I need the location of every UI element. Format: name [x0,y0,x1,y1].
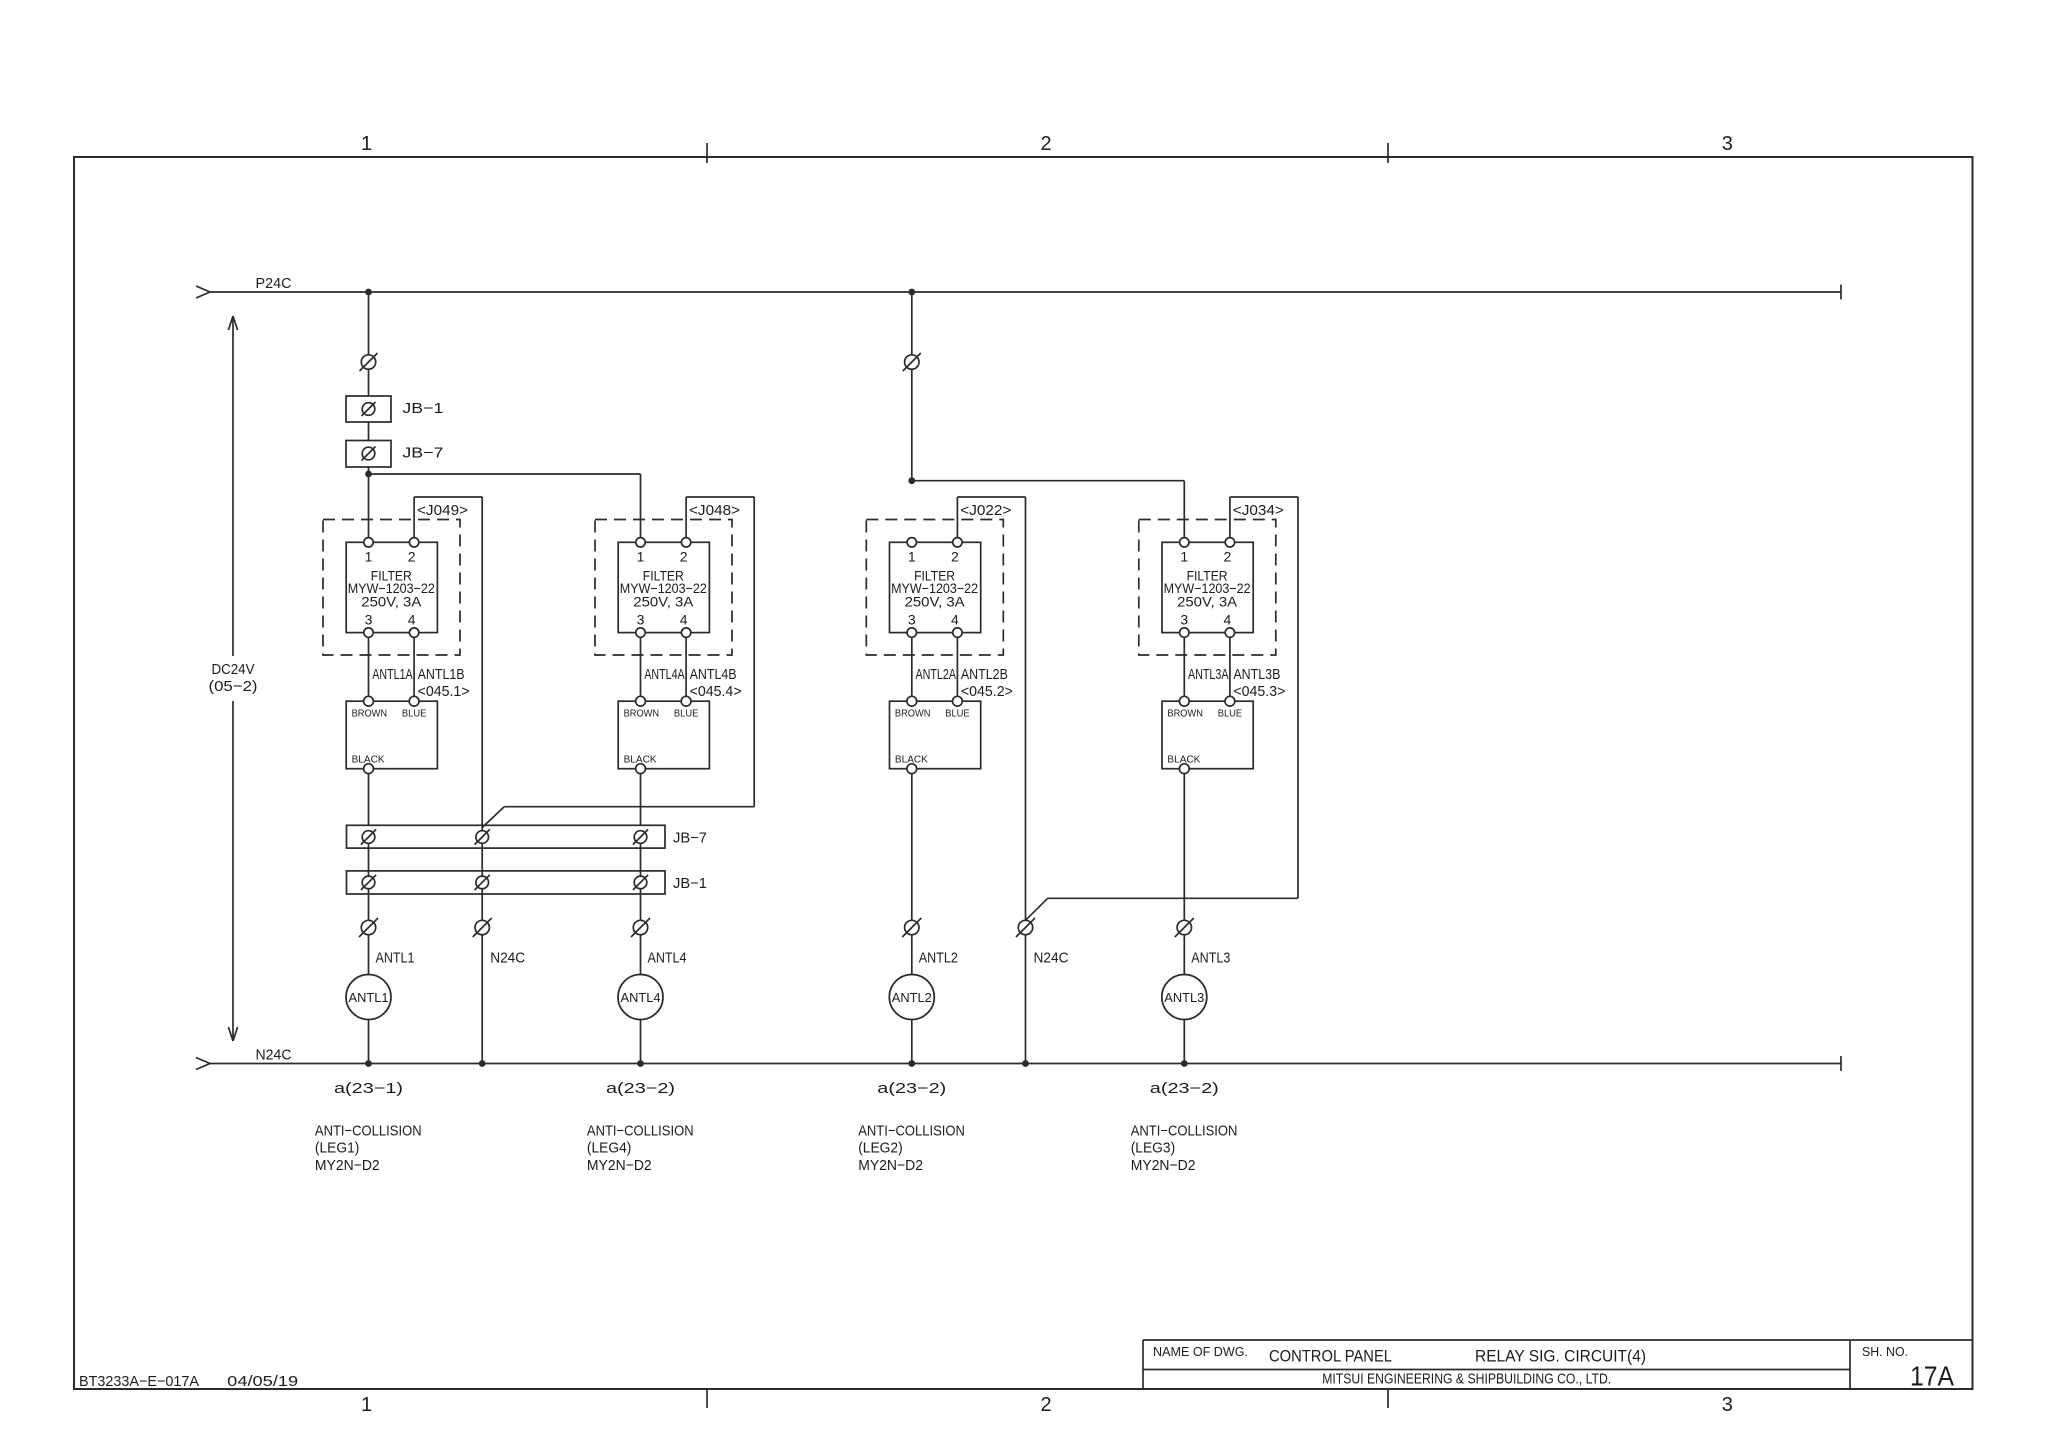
svg-text:a(23−2): a(23−2) [877,1080,946,1097]
svg-text:(LEG3): (LEG3) [1131,1140,1176,1157]
svg-text:3: 3 [1180,612,1188,628]
svg-text:ANTL4A: ANTL4A [644,666,685,683]
svg-text:CONTROL PANEL: CONTROL PANEL [1269,1346,1392,1365]
svg-text:3: 3 [1722,133,1733,155]
svg-text:BLACK: BLACK [1167,755,1200,766]
svg-text:ANTL4: ANTL4 [648,949,687,966]
svg-text:2: 2 [1040,133,1051,155]
svg-text:P24C: P24C [256,275,292,292]
svg-text:ANTL3: ANTL3 [1191,949,1230,966]
svg-text:(05−2): (05−2) [209,678,258,695]
svg-text:ANTL2B: ANTL2B [961,666,1008,683]
svg-text:4: 4 [1224,612,1232,628]
svg-text:1: 1 [361,1394,372,1416]
svg-text:1: 1 [908,549,916,565]
svg-text:3: 3 [908,612,916,628]
svg-text:3: 3 [1722,1394,1733,1416]
svg-text:3: 3 [637,612,645,628]
svg-text:2: 2 [1224,549,1232,565]
svg-text:MY2N−D2: MY2N−D2 [587,1157,652,1174]
svg-text:JB−1: JB−1 [402,400,443,417]
svg-text:BLACK: BLACK [895,755,928,766]
svg-text:ANTI−COLLISION: ANTI−COLLISION [1131,1123,1238,1140]
svg-text:JB−7: JB−7 [402,445,443,462]
svg-text:RELAY SIG. CIRCUIT(4): RELAY SIG. CIRCUIT(4) [1475,1346,1646,1365]
svg-text:N24C: N24C [256,1047,292,1064]
svg-text:a(23−2): a(23−2) [606,1080,675,1097]
svg-text:NAME OF DWG.: NAME OF DWG. [1153,1344,1248,1359]
svg-text:<J049>: <J049> [417,502,468,519]
svg-text:MY2N−D2: MY2N−D2 [858,1157,923,1174]
svg-text:ANTL1: ANTL1 [349,990,389,1005]
svg-text:N24C: N24C [1034,949,1069,966]
svg-text:1: 1 [361,133,372,155]
svg-text:BLUE: BLUE [945,708,970,719]
svg-text:250V, 3A: 250V, 3A [633,593,694,609]
svg-text:<J022>: <J022> [960,502,1011,519]
svg-text:250V, 3A: 250V, 3A [905,593,966,609]
svg-text:3: 3 [365,612,373,628]
svg-text:4: 4 [951,612,959,628]
svg-text:<045.4>: <045.4> [690,683,742,700]
svg-text:04/05/19: 04/05/19 [227,1373,298,1390]
svg-text:MY2N−D2: MY2N−D2 [315,1157,380,1174]
svg-text:<045.2>: <045.2> [961,683,1013,700]
svg-text:a(23−2): a(23−2) [1150,1080,1219,1097]
svg-text:MITSUI ENGINEERING & SHIPBUILD: MITSUI ENGINEERING & SHIPBUILDING CO., L… [1322,1371,1611,1388]
svg-text:JB−1: JB−1 [673,875,707,892]
svg-text:1: 1 [637,549,645,565]
svg-text:SH. NO.: SH. NO. [1862,1344,1908,1359]
svg-text:MY2N−D2: MY2N−D2 [1131,1157,1196,1174]
svg-text:ANTL2A: ANTL2A [916,666,957,683]
svg-text:BLACK: BLACK [624,755,657,766]
svg-text:ANTL4: ANTL4 [621,990,661,1005]
svg-text:BROWN: BROWN [1167,708,1203,719]
svg-text:ANTI−COLLISION: ANTI−COLLISION [315,1123,422,1140]
svg-text:ANTL1B: ANTL1B [418,666,465,683]
svg-text:ANTL3B: ANTL3B [1233,666,1280,683]
svg-text:<J034>: <J034> [1233,502,1284,519]
svg-text:(LEG4): (LEG4) [587,1140,632,1157]
svg-text:BLACK: BLACK [352,755,385,766]
svg-text:BROWN: BROWN [895,708,931,719]
svg-text:4: 4 [408,612,416,628]
svg-text:a(23−1): a(23−1) [334,1080,403,1097]
svg-text:17A: 17A [1910,1360,1954,1391]
svg-text:ANTI−COLLISION: ANTI−COLLISION [858,1123,965,1140]
svg-text:250V, 3A: 250V, 3A [361,593,422,609]
svg-text:1: 1 [365,549,373,565]
svg-text:ANTI−COLLISION: ANTI−COLLISION [587,1123,694,1140]
svg-text:<J048>: <J048> [689,502,740,519]
svg-text:ANTL3: ANTL3 [1164,990,1204,1005]
svg-text:250V, 3A: 250V, 3A [1177,593,1238,609]
svg-text:BT3233A−E−017A: BT3233A−E−017A [79,1373,199,1390]
svg-text:ANTL4B: ANTL4B [690,666,737,683]
svg-text:2: 2 [408,549,416,565]
svg-text:N24C: N24C [490,949,525,966]
svg-text:JB−7: JB−7 [673,830,707,847]
svg-text:BROWN: BROWN [624,708,660,719]
svg-text:2: 2 [951,549,959,565]
svg-text:1: 1 [1180,549,1188,565]
svg-text:BROWN: BROWN [352,708,388,719]
svg-text:BLUE: BLUE [1218,708,1243,719]
svg-text:4: 4 [680,612,688,628]
svg-text:ANTL1A: ANTL1A [372,666,413,683]
svg-text:ANTL2: ANTL2 [892,990,932,1005]
svg-text:<045.1>: <045.1> [418,683,470,700]
svg-text:ANTL1: ANTL1 [376,949,415,966]
svg-text:(LEG2): (LEG2) [858,1140,903,1157]
svg-text:DC24V: DC24V [212,661,255,678]
svg-text:ANTL3A: ANTL3A [1188,666,1229,683]
svg-text:BLUE: BLUE [674,708,699,719]
svg-text:2: 2 [680,549,688,565]
svg-text:<045.3>: <045.3> [1233,683,1285,700]
svg-text:ANTL2: ANTL2 [919,949,958,966]
svg-text:BLUE: BLUE [402,708,427,719]
svg-text:2: 2 [1040,1394,1051,1416]
svg-text:(LEG1): (LEG1) [315,1140,360,1157]
